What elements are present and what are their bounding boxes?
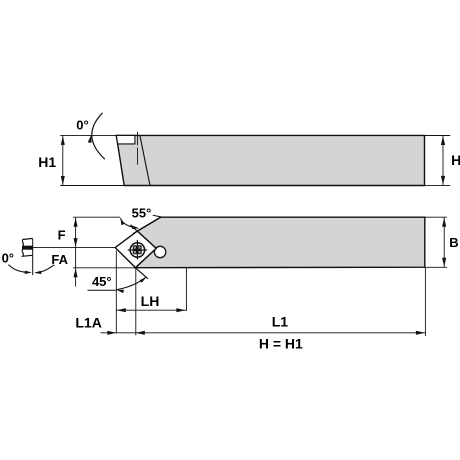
- pocket chamfer line: [133, 217, 161, 234]
- svg-text:L1A: L1A: [75, 315, 101, 331]
- pocket back line (side view): [140, 135, 150, 185]
- shank end extension line (vertical): [424, 267, 426, 336]
- 55deg angle arc: [120, 218, 138, 228]
- insert section symbol (front view): [22, 238, 33, 256]
- side view shank (upper view): [116, 135, 424, 185]
- top view shank (lower view): [135, 217, 424, 268]
- head end extension line (vertical): [185, 267, 187, 311]
- 55deg label underline: [153, 215, 162, 217]
- svg-text:0°: 0°: [76, 117, 88, 132]
- svg-text:LH: LH: [141, 293, 160, 309]
- back rake angle arc 0deg: [92, 113, 105, 159]
- svg-text:B: B: [449, 235, 458, 250]
- H1 dimension arrow: [62, 135, 64, 185]
- bottom edge extension left: [73, 267, 135, 269]
- tip extension line (vertical): [115, 251, 117, 334]
- FA leader arc: [36, 265, 54, 273]
- insert centerline tick (side view): [137, 132, 139, 145]
- 45deg edge extension line: [135, 268, 147, 279]
- H dimension arrow: [442, 136, 444, 186]
- svg-text:55°: 55°: [132, 205, 152, 220]
- svg-text:45°: 45°: [92, 274, 112, 289]
- tip level line: [33, 247, 116, 249]
- H1 extension lines: [60, 134, 116, 136]
- 0deg front arc: [9, 265, 31, 273]
- clamp screw crosshair circle: [128, 240, 147, 260]
- L1A / L1 dimension line: [101, 332, 426, 334]
- svg-text:L1: L1: [272, 314, 289, 330]
- pocket hole circle: [154, 246, 165, 257]
- svg-text:0°: 0°: [2, 251, 14, 266]
- H extension lines: [425, 135, 451, 137]
- svg-text:H: H: [451, 152, 460, 168]
- svg-text:H = H1: H = H1: [259, 336, 303, 352]
- B dimension arrow: [443, 217, 445, 267]
- insert edge extension beyond top vertex: [130, 225, 137, 231]
- insert pocket notch (side view): [116, 135, 134, 144]
- insert rhombus (55deg): [115, 231, 156, 268]
- B extension lines: [425, 216, 447, 218]
- svg-text:F: F: [58, 228, 66, 243]
- F dimension line: [75, 217, 77, 286]
- 55deg reference line (top edge level): [73, 216, 120, 218]
- svg-text:H1: H1: [38, 154, 56, 170]
- nose extension line (vertical): [135, 269, 137, 336]
- 45deg angle arc: [116, 278, 146, 290]
- section symbol vertical line: [32, 239, 34, 276]
- LH dimension line: [116, 309, 186, 311]
- 45deg label underline: [88, 289, 116, 291]
